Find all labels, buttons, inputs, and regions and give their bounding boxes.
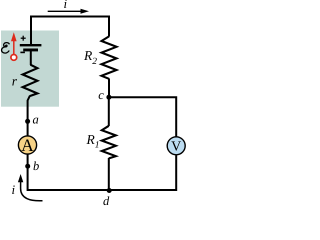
wire: R2 to node c — [108, 79, 110, 99]
svg-text:i: i — [64, 0, 68, 11]
resistor r — [23, 65, 38, 96]
voltmeter V — [167, 137, 185, 155]
ammeter A — [18, 135, 36, 155]
svg-text:c: c — [98, 88, 104, 102]
wire: top-left battery lead — [30, 17, 32, 46]
label ℰ (script E) — [2, 43, 10, 53]
emf arrow ℰ (red) — [11, 32, 17, 60]
wire: R2 top lead — [108, 16, 110, 37]
wire: node c to R1 — [108, 97, 110, 126]
resistor R2 — [102, 36, 117, 78]
wire: battery to resistor r — [30, 51, 32, 65]
node a — [25, 119, 30, 124]
wire: voltmeter to bottom wire — [109, 155, 176, 190]
wire: ammeter to node b — [27, 155, 29, 167]
svg-text:i: i — [12, 182, 16, 197]
current arrow i (top) — [48, 9, 89, 14]
wire: node a to ammeter — [27, 121, 29, 136]
wire: node c to voltmeter branch — [109, 97, 176, 136]
svg-text:R1: R1 — [86, 132, 100, 151]
svg-text:V: V — [171, 140, 181, 155]
wire: r to node a (with jog) — [28, 96, 30, 123]
minus sign — [20, 51, 25, 53]
node b — [25, 164, 30, 169]
node d — [107, 188, 112, 193]
wire: top horizontal — [30, 16, 110, 18]
wire: R1 to node d — [108, 158, 110, 191]
svg-text:A: A — [21, 135, 34, 155]
svg-text:b: b — [33, 159, 39, 173]
battery ℰ: positive plate (long) — [20, 44, 42, 46]
plus sign — [21, 36, 26, 41]
node c — [106, 95, 111, 100]
battery shaded region — [1, 31, 59, 107]
wire: node b to bottom-left corner — [28, 166, 110, 190]
svg-text:r: r — [12, 73, 18, 88]
current arrow i (bottom, curved) — [18, 174, 43, 201]
resistor R1 — [102, 126, 116, 159]
svg-text:R2: R2 — [83, 48, 97, 67]
svg-text:d: d — [103, 194, 110, 208]
battery ℰ: negative plate (short thick) — [23, 49, 38, 52]
svg-text:a: a — [33, 113, 39, 127]
